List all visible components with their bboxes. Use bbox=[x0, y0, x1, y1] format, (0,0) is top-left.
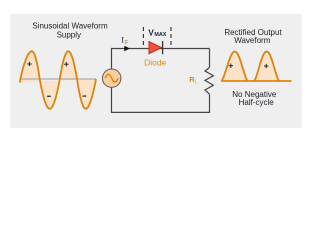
svg-text:MAX: MAX bbox=[154, 32, 166, 38]
svg-text:Waveform: Waveform bbox=[234, 36, 270, 45]
svg-text:Diode: Diode bbox=[144, 58, 166, 68]
svg-text:F: F bbox=[125, 40, 129, 46]
svg-text:L: L bbox=[195, 79, 198, 85]
svg-text:Sinusoidal Waveform: Sinusoidal Waveform bbox=[32, 22, 108, 31]
svg-text:Half-cycle: Half-cycle bbox=[239, 98, 275, 107]
svg-text:Supply: Supply bbox=[57, 31, 81, 40]
